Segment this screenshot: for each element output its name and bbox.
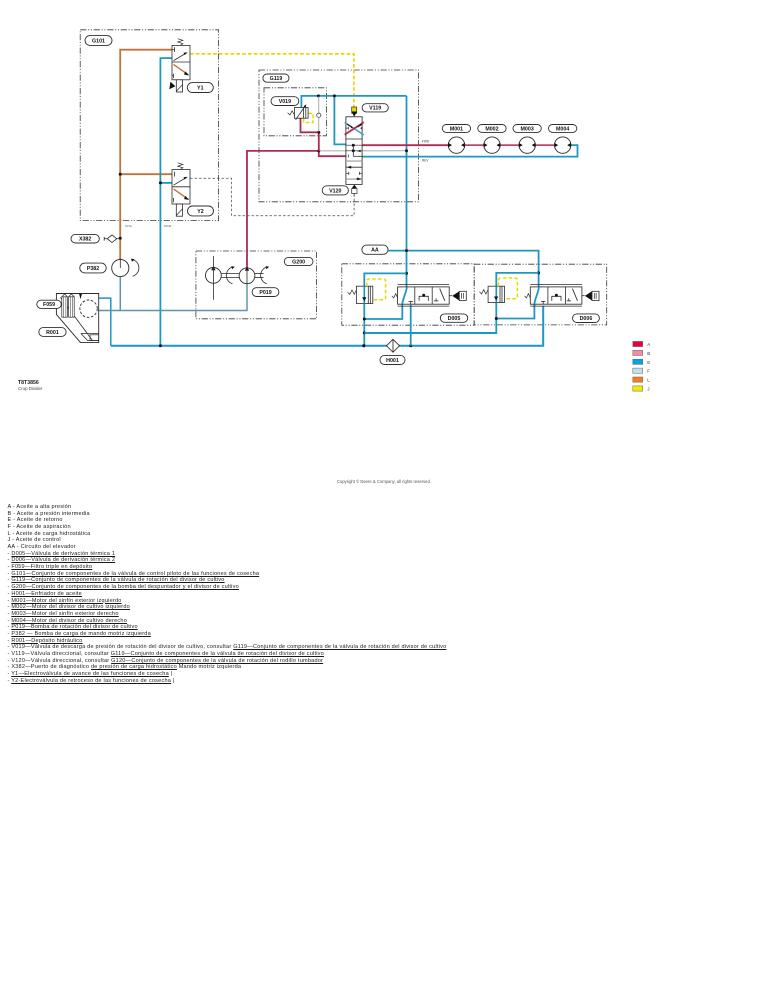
wire blue S-path through D005 valve and to reducing valve net	[364, 287, 407, 319]
junction orange at Y2 branch	[119, 173, 122, 176]
label V019	[271, 97, 299, 106]
label G200	[284, 257, 313, 265]
yellow pilot loop D006	[499, 278, 518, 299]
label D006	[573, 314, 600, 323]
svg-text:A: A	[647, 342, 651, 347]
svg-text:P019: P019	[259, 290, 271, 296]
motor M003	[519, 137, 536, 153]
svg-text:D005: D005	[448, 316, 461, 322]
P019 shaft lines	[221, 274, 263, 278]
svg-text:F: F	[647, 369, 650, 374]
wire yellow pilot Y1 to V119 solenoid	[190, 54, 354, 107]
svg-text:M002: M002	[485, 126, 498, 132]
directional valve D006	[530, 285, 582, 307]
pump P019 right circle	[239, 267, 255, 284]
svg-text:H001: H001	[386, 358, 399, 364]
P019 rotation arrows	[226, 266, 269, 284]
svg-text:FWD: FWD	[422, 140, 430, 144]
pressure valve D006 left	[479, 286, 504, 302]
junction red V019 node	[317, 131, 320, 134]
wire red M001-M002	[465, 144, 484, 146]
motor M002	[484, 137, 501, 153]
wire blue D005 valve tank drop	[410, 305, 412, 346]
junction orange above P382	[119, 259, 122, 262]
svg-text:E: E	[647, 360, 650, 365]
reservoir and filter F059/R001	[56, 294, 98, 343]
svg-text:F059: F059	[43, 302, 55, 308]
junction blue AA x main vertical	[405, 249, 408, 252]
wire blue D006 reducing valve drop	[365, 303, 496, 334]
junction main return x tank line	[159, 344, 162, 347]
svg-text:AA: AA	[371, 248, 379, 254]
solenoid D006 right	[582, 291, 599, 300]
junction red LS node	[317, 149, 320, 152]
relief valve V019	[288, 104, 309, 120]
junction blue D006 reducing branch	[537, 271, 540, 274]
label G101	[85, 36, 112, 46]
assembly box G119	[259, 70, 419, 202]
label M003	[513, 125, 541, 133]
label AA	[362, 245, 388, 254]
junction blue D006-1	[495, 317, 498, 320]
svg-text:G119: G119	[270, 76, 283, 82]
junction blue D005-2	[363, 331, 366, 334]
svg-text:M004: M004	[556, 126, 569, 132]
label R001	[39, 328, 66, 337]
wire blue main bottom return with riser to D006 valve	[111, 306, 543, 346]
part number title	[18, 380, 42, 392]
wire blue S through D005 re-draw	[402, 287, 407, 304]
label M002	[478, 125, 506, 133]
spring box below V120	[352, 185, 357, 196]
wire blue branch to Y2	[160, 182, 172, 184]
svg-text:G200: G200	[292, 259, 305, 265]
wire suction P382 drop	[119, 277, 121, 311]
label V119	[362, 104, 388, 112]
valve Y2 solenoid 3-2	[172, 163, 190, 216]
test port X382	[104, 235, 120, 243]
legend colour chips	[633, 341, 652, 391]
junction blue V119 branch	[333, 94, 336, 97]
label F059	[37, 300, 62, 308]
wire orange branch to Y2	[120, 173, 172, 175]
wire blue V019 net top	[301, 96, 406, 108]
assembly box G101	[80, 30, 218, 221]
svg-text:M001: M001	[450, 126, 463, 132]
svg-text:V120: V120	[329, 188, 341, 194]
junction main return D005 left	[362, 344, 365, 347]
svg-text:J: J	[647, 387, 649, 392]
junction blue D005 reducing branch	[405, 272, 408, 275]
svg-text:REV: REV	[422, 158, 429, 162]
label P019	[252, 288, 279, 297]
wire grey LS line with orifice	[318, 96, 320, 113]
assembly box D005	[342, 264, 474, 325]
junction blue D005-1	[363, 318, 366, 321]
wire suction F059 to P019	[97, 284, 247, 311]
wire orange supply from Y1 down to P382	[120, 50, 172, 260]
wire blue tank line from Y1 down to main return	[160, 58, 172, 346]
junction blue D005-3	[363, 344, 366, 347]
pressure valve D005 left	[348, 286, 373, 303]
solenoid V119 yellow	[352, 107, 357, 117]
svg-text:D006: D006	[580, 316, 593, 322]
wire blue REV return from V120 to M004	[362, 145, 577, 157]
pump P019 left circle	[206, 256, 222, 300]
wire blue D005 reducing valve drop to main return	[363, 304, 365, 346]
junction grey LS at return line	[405, 149, 408, 152]
label G119	[263, 74, 289, 82]
label Y1	[187, 83, 213, 93]
svg-text:B: B	[647, 351, 650, 356]
label M004	[549, 125, 577, 133]
svg-text:M003: M003	[521, 126, 534, 132]
junction blue grey-branch	[317, 94, 320, 97]
svg-text:TANK: TANK	[164, 224, 173, 228]
label D005	[440, 314, 467, 322]
motor M001	[448, 137, 465, 153]
wire blue S-path through D006 valve	[496, 287, 539, 318]
legend / component list text	[8, 504, 447, 685]
label H001	[380, 355, 405, 364]
directional valve stack V119/V120	[345, 117, 364, 185]
svg-text:Y1: Y1	[197, 85, 204, 91]
label Y2	[188, 206, 214, 216]
assembly box V019 (inner)	[264, 88, 326, 136]
junction orange at X382 port	[119, 237, 122, 240]
svg-text:P382: P382	[87, 266, 99, 272]
pump P382	[112, 259, 139, 277]
valve Y1 solenoid 3-2	[169, 39, 190, 92]
label X382	[71, 234, 99, 243]
svg-text:CHG: CHG	[125, 224, 132, 228]
wire blue branch to V119 P port	[334, 96, 346, 144]
svg-text:V119: V119	[369, 106, 381, 112]
svg-text:Y2: Y2	[197, 209, 204, 215]
wire red FWD from V119 to M001	[362, 144, 448, 146]
wire pilot dashed Y2 to V120	[190, 178, 354, 216]
solenoid D005 right	[449, 291, 466, 300]
wire blue link D005 to D006 bottoms	[364, 332, 496, 334]
wire blue F059 return	[99, 298, 111, 346]
directional valve D005	[398, 285, 450, 307]
svg-text:L: L	[647, 378, 650, 383]
wire blue branch to D005 reducing valve	[364, 273, 406, 286]
yellow pilot loop D005	[367, 279, 386, 300]
svg-text:V019: V019	[279, 99, 291, 105]
oil cooler H001	[387, 339, 400, 352]
junction blue at Y2 branch	[159, 181, 162, 184]
wire red P019 pressure to V120	[247, 151, 346, 268]
wire red V019 drain	[301, 118, 319, 151]
svg-text:G101: G101	[92, 38, 105, 44]
assembly box G200	[196, 251, 317, 319]
svg-text:R001: R001	[46, 330, 59, 336]
label P382	[80, 263, 106, 273]
wire blue main return vertical to D005	[406, 96, 408, 287]
label V120	[322, 186, 348, 195]
wire yellow V019 pilot loop	[304, 113, 313, 122]
wire blue AA supply line	[388, 251, 538, 288]
label M001	[442, 125, 470, 133]
wire red M003-M004	[536, 144, 555, 146]
motor M004	[554, 137, 571, 153]
svg-text:X382: X382	[79, 237, 91, 243]
orifice symbol on LS line	[317, 113, 321, 117]
junction main return D005 right	[409, 344, 412, 347]
wire red M002-M003	[500, 144, 518, 146]
wire blue branch to D006 reducing valve	[496, 273, 538, 286]
wire blue S through D006 re-draw	[534, 287, 539, 304]
wire grey LS through V120 to return	[319, 150, 407, 152]
copyright	[0, 479, 768, 484]
assembly box D006	[474, 264, 607, 325]
